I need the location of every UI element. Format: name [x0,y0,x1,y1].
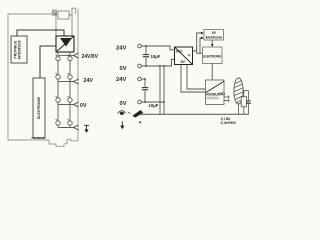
wire ELEKTRONIK to rectifier 5V [40,46,56,78]
terminal 3a [56,98,60,102]
power jumper contact (hatched) [52,10,57,16]
supply terminal A [138,44,142,48]
diagonal [56,36,74,52]
terminal 1a [56,56,60,60]
tick 1a [56,55,57,56]
spring contact pair1 [74,53,79,58]
wire 0V to DC/DC [141,60,174,67]
earth symbol field side [121,121,123,126]
spring contact pair3 [74,102,79,107]
svg-text:10µF: 10µF [149,103,159,108]
bus wire pair4 [58,125,70,127]
wire pair3 to pair4 [58,103,70,121]
arrow electronics to system box [211,40,213,45]
svg-text:2) 10nF/500V: 2) 10nF/500V [221,121,237,125]
wire DC/DC down 2 [187,65,206,90]
tick 2a [56,73,57,74]
tick 2b [68,73,69,74]
terminal 2b [68,75,72,79]
svg-text:5V: 5V [181,60,186,64]
wire hatched contact to rectifier [55,16,57,37]
terminal 2a [56,75,60,79]
svg-text:5V: 5V [212,31,217,35]
wire 0V2 [141,101,164,103]
PROFIBUS INTERFACE box U1 [11,36,27,63]
shield clamp symbol [118,111,126,114]
svg-text:24V: 24V [84,78,94,84]
wire DC/DC down 1 [181,65,206,93]
svg-text:0V: 0V [120,66,127,72]
svg-text:FELDBUS: FELDBUS [32,136,45,140]
svg-text:1): 1) [188,53,191,57]
svg-text:INTERFACE: INTERFACE [17,39,21,59]
DC/DC converter U3 [175,47,193,65]
bus wire pair2 [58,81,74,83]
terminal stubs from rectifier [58,52,70,56]
rectifier / power supply box [56,36,74,52]
svg-text:24V: 24V [116,77,126,83]
diode triangle [60,38,72,47]
terminal 3b [68,98,72,102]
resistor R1 1 MOhm [243,91,245,97]
bus wire pair3 [58,104,74,106]
wire PROFIBUS box to rectifier input [17,30,64,36]
spring contact pair4 [74,125,79,130]
system box B2 [203,47,223,64]
svg-text:24V/0V: 24V/0V [82,54,99,60]
chassis earth arrow [133,110,144,118]
electronics box B1 [204,30,224,41]
svg-text:24V: 24V [176,50,183,54]
svg-text:ELEKTRONIK: ELEKTRONIK [203,54,221,58]
tick 3a [56,96,57,97]
MODBUS interface box B3 [206,80,225,105]
wire system box to MODBUS interface [211,64,213,81]
svg-text:24V: 24V [116,46,126,52]
svg-text:10µF: 10µF [151,54,161,59]
tick 4b [68,119,69,120]
svg-text:MODBUS: MODBUS [206,93,220,97]
wire 24V2 to capacitor C2 [141,78,145,80]
wire MODBUS to cable b [224,100,229,102]
earth symbol module [84,125,89,130]
wire 0V down to shield rail 1 [159,66,161,114]
wire DC/DC 5V out to electronics [193,33,202,53]
ELEKTRONIK box U2 [33,78,45,138]
svg-text:0V: 0V [80,103,87,109]
svg-text:Elektronik: Elektronik [206,35,223,39]
junction dot [55,29,57,31]
terminal 1b [68,56,72,60]
wire cable to termination [243,90,249,92]
wire pair2 to pair3 [58,80,70,98]
fieldbus cable (twisted pair) [234,78,243,104]
terminal 4a [56,121,60,125]
tick 3b [68,96,69,97]
tick 1b [68,55,69,56]
shield rail [140,113,249,115]
footnote dot [139,121,141,123]
svg-text:ELEKTRONIK: ELEKTRONIK [37,96,41,119]
wire MODBUS to cable a [224,96,229,98]
capacitor C1 10uF [145,46,147,54]
wire 0V down to shield rail 2 [163,66,165,114]
jumper contact box [58,11,69,19]
supply terminal B [138,64,142,68]
svg-text:0V: 0V [120,101,127,107]
plug contact b [222,93,224,95]
supply terminal C [138,77,142,81]
capacitor C3 10nF [247,91,249,101]
plug contact a [220,93,222,95]
wire contact box to rectifier [69,8,75,36]
spring contact pair2 [74,79,79,84]
coupler module outline [8,8,78,147]
supply terminal D [138,100,142,104]
wire pair1 to pair2 [58,61,70,74]
capacitor C2 10uF [144,79,146,87]
terminal 4b [68,121,72,125]
wire DC/DC 0V out to electronics [200,38,202,53]
tick 4a [56,119,57,120]
bus wire pair1 [58,55,74,57]
wire 24V to DC/DC [141,46,174,50]
wire cable shield down [238,104,240,114]
